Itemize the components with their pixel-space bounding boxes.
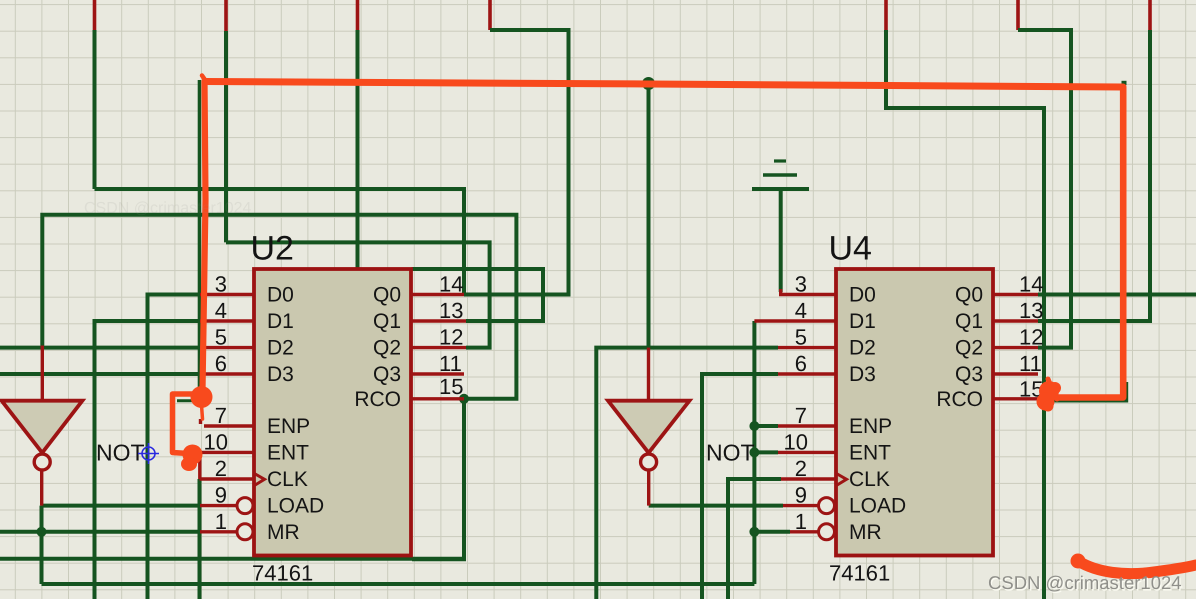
wire elbow remnant: [177, 399, 198, 402]
orange right vertical: [1120, 88, 1127, 396]
svg-text:7: 7: [215, 403, 227, 428]
svg-text:2: 2: [795, 456, 807, 481]
power stub top 6: [1016, 0, 1020, 30]
wire D2 U4 riser: [596, 348, 778, 599]
wire CLK U2 down: [198, 479, 202, 599]
svg-text:MR: MR: [267, 521, 300, 544]
orange scribble knot: [1039, 381, 1059, 401]
svg-text:1: 1: [795, 509, 807, 534]
orange tail: [201, 398, 203, 419]
svg-text:ENP: ENP: [267, 415, 310, 438]
pin MR U4: [790, 530, 819, 533]
pin LOAD U2: [200, 504, 237, 507]
wire stub1 down: [93, 30, 97, 189]
svg-text:5: 5: [215, 325, 227, 350]
svg-text:U4: U4: [829, 230, 872, 268]
svg-text:D0: D0: [267, 284, 294, 307]
junction dot orange line: [642, 77, 655, 90]
wire ground stem: [779, 191, 783, 292]
svg-text:Q3: Q3: [955, 363, 983, 386]
pin CLK U4: [781, 477, 835, 480]
IC U2: [254, 269, 411, 556]
svg-text:ENT: ENT: [849, 441, 891, 464]
wire top right net: [886, 30, 1044, 599]
orange blob 2 lobe: [181, 457, 197, 471]
svg-text:CLK: CLK: [267, 468, 308, 491]
wire NOT1 out down: [40, 506, 44, 584]
wire D3 U2 from left: [0, 372, 200, 376]
pin D1 U4: [754, 319, 834, 322]
svg-text:D2: D2: [849, 337, 876, 360]
pin ENP U2: [204, 424, 254, 427]
svg-text:NOT: NOT: [96, 440, 145, 466]
pin D0 U4: [781, 289, 836, 295]
power stub top 7: [1148, 0, 1152, 30]
svg-text:10: 10: [784, 429, 808, 454]
wire Q1 U4 riser: [1038, 30, 1150, 321]
svg-text:D2: D2: [267, 337, 294, 360]
pin Q3 U4: [994, 372, 1039, 375]
svg-text:4: 4: [215, 298, 227, 323]
pin D2 U4: [778, 346, 835, 349]
wire D1 U4 down: [752, 321, 756, 584]
svg-text:10: 10: [204, 429, 228, 454]
orange nub: [202, 76, 206, 81]
power stub top 3: [356, 0, 360, 30]
wire bus y584: [42, 582, 755, 586]
pin D0 U2: [200, 293, 254, 296]
power stub top 2: [224, 0, 228, 31]
ground symbol: [752, 161, 809, 189]
wire CLK U4 riser: [728, 479, 781, 599]
svg-text:5: 5: [795, 325, 807, 350]
svg-text:Q2: Q2: [373, 337, 401, 360]
svg-text:D3: D3: [849, 363, 876, 386]
wire stub3 down to U2 top: [356, 30, 360, 268]
svg-text:1: 1: [215, 509, 227, 534]
pin hidden red mark U2: [199, 419, 202, 424]
svg-text:NOT: NOT: [706, 440, 755, 466]
bubble LOAD U4: [819, 498, 835, 514]
svg-text:12: 12: [439, 325, 463, 350]
svg-text:6: 6: [215, 351, 227, 376]
pin hidden red link ENT-CLK U2: [198, 452, 201, 479]
pin ENP U4: [778, 424, 835, 427]
NOT gate 1: [2, 346, 83, 506]
svg-text:RCO: RCO: [354, 388, 401, 411]
wire NOT2 input from top: [647, 84, 651, 348]
wire y242 to Q2 riser: [226, 242, 490, 347]
orange annotation main horizontal: [205, 82, 1123, 88]
pin RCO U4: [994, 397, 1039, 400]
svg-text:Q0: Q0: [373, 284, 401, 307]
svg-text:ENP: ENP: [849, 415, 892, 438]
orange bottom scribble: [1078, 561, 1196, 574]
wire NOT2 out to LOAD U4: [649, 504, 783, 508]
svg-text:14: 14: [439, 272, 463, 297]
svg-text:CSDN @crimaster1024: CSDN @crimaster1024: [84, 200, 252, 217]
svg-text:74161: 74161: [252, 561, 313, 586]
svg-text:11: 11: [1019, 351, 1042, 376]
pin D1 U2: [200, 319, 254, 322]
pin ENT U2: [197, 451, 254, 454]
pin D2 U2: [200, 346, 254, 349]
wire RCO U4 hidden under orange: [1038, 382, 1127, 401]
pin ENT U4: [778, 451, 835, 454]
pin Q1 U2: [411, 319, 466, 322]
svg-text:4: 4: [795, 298, 807, 323]
svg-text:CLK: CLK: [849, 468, 890, 491]
orange left vertical: [203, 82, 206, 391]
wire stub4 to Q0 row: [464, 30, 569, 295]
svg-text:D1: D1: [849, 310, 876, 333]
svg-text:74161: 74161: [829, 561, 890, 586]
pin Q2 U4: [994, 346, 1039, 349]
crosshair marker: [138, 443, 159, 464]
bubble MR U2: [237, 524, 253, 540]
svg-text:D3: D3: [267, 363, 294, 386]
pin D3 U4: [778, 372, 835, 375]
pin Q2 U2: [411, 346, 466, 349]
pin MR U2: [200, 530, 237, 533]
svg-text:15: 15: [439, 374, 463, 399]
svg-text:6: 6: [795, 351, 807, 376]
svg-text:13: 13: [1019, 298, 1043, 323]
svg-text:Q3: Q3: [373, 363, 401, 386]
IC U4: [836, 269, 993, 556]
wire under orange vertical: [198, 80, 201, 393]
svg-text:Q1: Q1: [373, 310, 401, 333]
svg-text:U2: U2: [251, 230, 294, 268]
pin Q0 U4: [994, 293, 1039, 296]
wire stub2 down: [224, 31, 228, 242]
svg-text:12: 12: [1019, 325, 1043, 350]
clock arrow U4: [836, 473, 847, 486]
junction dot MR U4: [749, 527, 759, 537]
svg-text:Q0: Q0: [955, 284, 983, 307]
wire D1 U2: [95, 321, 201, 599]
svg-text:3: 3: [795, 272, 807, 297]
wire MR U2 from left: [0, 530, 200, 534]
wire D2 U2 from left: [0, 346, 200, 350]
svg-text:CSDN @crimaster1024: CSDN @crimaster1024: [988, 572, 1182, 593]
svg-text:9: 9: [215, 483, 227, 508]
wire corner under orange top right: [1122, 81, 1127, 85]
svg-text:Q1: Q1: [955, 310, 983, 333]
svg-text:MR: MR: [849, 521, 882, 544]
orange bottom scribble cap: [1071, 554, 1086, 569]
pin CLK U2: [200, 477, 255, 480]
svg-text:3: 3: [215, 272, 227, 297]
power stub top 5: [884, 0, 888, 30]
junction dot ENP U4: [749, 421, 759, 431]
pin D3 U2: [200, 372, 254, 375]
wire y190 to Q0 riser: [95, 189, 465, 295]
svg-text:D1: D1: [267, 310, 294, 333]
wire ENP U4: [754, 424, 778, 428]
wire D0 U2: [148, 295, 201, 599]
pin Q0 U2: [411, 293, 464, 296]
svg-text:11: 11: [439, 351, 462, 376]
pin RCO U2: [411, 397, 464, 400]
pin Q1 U4: [994, 319, 1039, 322]
svg-text:LOAD: LOAD: [849, 495, 906, 518]
svg-text:RCO: RCO: [936, 388, 983, 411]
wire ENT U4: [754, 450, 778, 454]
junction dot RCO U2: [459, 394, 469, 404]
junction dot ENT U4: [749, 447, 759, 457]
wire bus y558: [0, 557, 464, 561]
svg-text:Q2: Q2: [955, 337, 983, 360]
wire RCO down to U2 bottom: [412, 399, 464, 559]
svg-text:9: 9: [795, 483, 807, 508]
wire Q0 U4 to right edge: [1038, 293, 1196, 297]
power stub top 4: [488, 0, 492, 30]
svg-text:D0: D0: [849, 284, 876, 307]
svg-text:LOAD: LOAD: [267, 495, 324, 518]
svg-text:2: 2: [215, 456, 227, 481]
orange scribble RCO: [1044, 379, 1057, 404]
bubble MR U4: [819, 524, 835, 540]
wire Q2 U4 riser: [1018, 30, 1071, 348]
orange blob 2: [183, 445, 203, 465]
wire MR U4: [754, 530, 790, 534]
power stub top 1: [93, 0, 97, 30]
svg-text:ENT: ENT: [267, 441, 309, 464]
orange elbow: [173, 394, 200, 454]
pin Q3 U2: [411, 372, 464, 375]
clock arrow U2: [254, 473, 265, 486]
wire RCO U2 to NOT1 input: [42, 215, 516, 399]
bubble LOAD U2: [237, 498, 253, 514]
NOT gate 2: [608, 348, 690, 506]
wire NOT1 out to LOAD U2: [42, 504, 201, 508]
orange right horizontal: [1058, 396, 1123, 398]
junction dot NOT1 MR: [37, 527, 47, 537]
pin LOAD U4: [783, 504, 819, 507]
wire D3 U4 riser: [702, 374, 778, 599]
svg-text:14: 14: [1019, 272, 1043, 297]
wire U2 corner to Q1: [412, 269, 544, 321]
orange blob 1: [191, 386, 213, 408]
svg-text:7: 7: [795, 403, 807, 428]
svg-text:13: 13: [439, 298, 463, 323]
